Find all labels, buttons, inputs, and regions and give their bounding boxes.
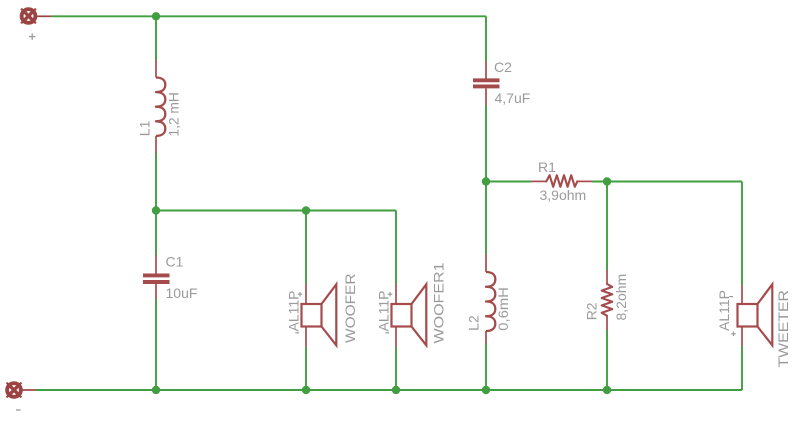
speaker WOOFER1 (AL11P) — [392, 284, 427, 347]
junction row3 at R2 — [603, 177, 611, 185]
svg-text:WOOFER: WOOFER — [342, 274, 358, 344]
pin label - TWEETER — [729, 296, 733, 298]
pin label - WOOFER1 — [385, 332, 389, 334]
svg-text:8,2ohm: 8,2ohm — [613, 274, 629, 321]
svg-text:0,6mH: 0,6mH — [495, 287, 511, 331]
wire L2 bottom — [485, 343, 487, 390]
wire tweeter drop — [741, 182, 743, 286]
svg-text:4,7uF: 4,7uF — [495, 90, 531, 106]
resistor R2 — [602, 270, 613, 330]
pin label - WOOFER — [295, 332, 299, 334]
junction row3 at L2 — [482, 177, 490, 185]
pin label + TWEETER — [731, 332, 736, 337]
junction bottom at C1 — [152, 386, 160, 394]
svg-text:C2: C2 — [494, 59, 512, 75]
wire bottom rail — [36, 389, 742, 391]
svg-text:3,9ohm: 3,9ohm — [540, 187, 587, 203]
wire row3 right segment — [592, 181, 742, 183]
junction bottom at woofer1 — [392, 386, 400, 394]
svg-text:L2: L2 — [466, 315, 482, 331]
speaker TWEETER (AL11P) — [738, 284, 773, 346]
svg-text:L1: L1 — [137, 120, 153, 136]
svg-text:1,2 mH: 1,2 mH — [166, 92, 182, 137]
wire woofer1 drop — [395, 211, 397, 285]
wire top-right drop to C2 — [485, 16, 487, 61]
wire R2 bottom — [606, 330, 608, 390]
svg-text:AL11P: AL11P — [286, 291, 302, 332]
wire row3 left segment — [486, 181, 531, 183]
svg-text:TWEETER: TWEETER — [775, 290, 791, 368]
wire top rail — [51, 15, 486, 17]
junction bottom at woofer — [302, 386, 310, 394]
wire C2 to row3 — [485, 105, 487, 182]
svg-text:WOOFER1: WOOFER1 — [431, 262, 447, 343]
junction bottom at L2 — [482, 386, 490, 394]
capacitor C2 — [473, 61, 500, 106]
inductor L1 — [156, 60, 165, 153]
wire woofer1 bottom — [395, 347, 397, 390]
junction row2 at woofer — [302, 206, 310, 214]
wire R2 top — [606, 182, 608, 271]
junction row2 at C1 — [152, 206, 160, 214]
wire L2 top — [485, 182, 487, 255]
svg-text:10uF: 10uF — [166, 285, 198, 301]
svg-text:C1: C1 — [166, 254, 184, 270]
capacitor C1 — [143, 255, 170, 299]
label - terminal — [16, 409, 21, 411]
connector X2 negative terminal (pinhead) — [7, 383, 36, 398]
label + terminal — [29, 33, 36, 40]
wire row2 to C1 — [155, 211, 157, 256]
wire tweeter bottom — [741, 346, 743, 390]
junction at L1 top rail — [152, 12, 160, 20]
resistor R1 — [531, 175, 592, 187]
speaker WOOFER (AL11P) — [302, 284, 337, 347]
wire woofer top — [305, 211, 307, 285]
connector X1 positive terminal (pinhead) — [21, 9, 51, 24]
wire row2 — [156, 210, 396, 212]
svg-text:R1: R1 — [538, 159, 556, 175]
wire L1 top — [155, 16, 157, 60]
pin label + WOOFER — [298, 292, 303, 297]
inductor L2 — [486, 254, 495, 344]
wire woofer bottom — [305, 347, 307, 390]
svg-text:R2: R2 — [584, 302, 600, 320]
pin label + WOOFER1 — [388, 292, 393, 297]
wire L1 bottom to row2 — [155, 153, 157, 211]
svg-text:AL11P: AL11P — [376, 291, 392, 332]
junction bottom at R2 — [603, 386, 611, 394]
wire C1 bottom — [155, 299, 157, 391]
